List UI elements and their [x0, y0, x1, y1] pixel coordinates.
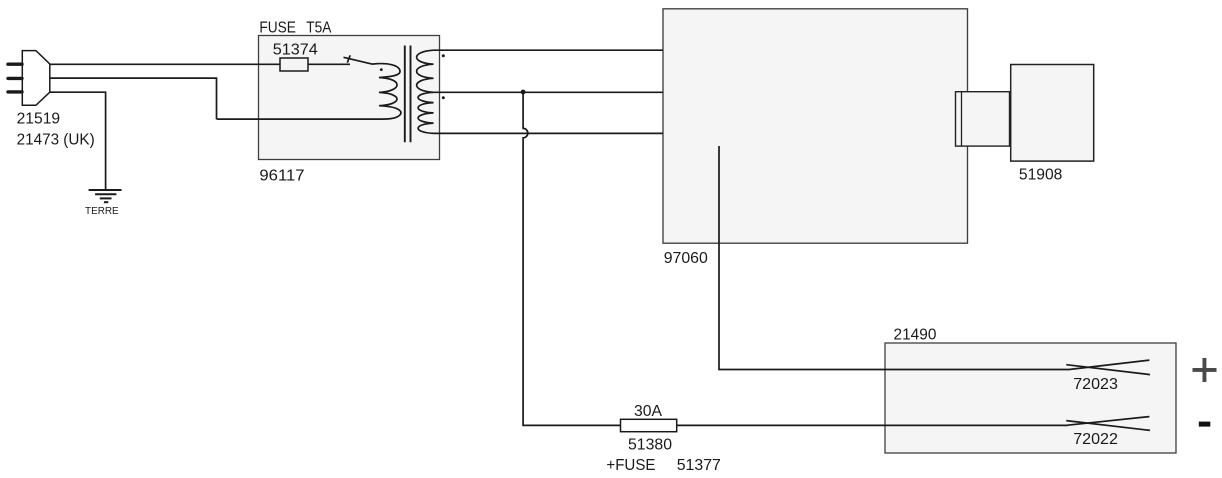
svg-text:30A: 30A: [634, 403, 662, 420]
svg-text:+FUSE: +FUSE: [606, 457, 655, 474]
svg-text:21473 (UK): 21473 (UK): [17, 131, 95, 148]
svg-text:72023: 72023: [1073, 376, 1118, 393]
svg-text:72022: 72022: [1073, 431, 1118, 448]
svg-text:97060: 97060: [664, 250, 708, 267]
svg-text:51374: 51374: [273, 41, 318, 58]
svg-text:51377: 51377: [677, 457, 721, 474]
svg-text:TERRE: TERRE: [85, 206, 119, 217]
svg-text:FUSE: FUSE: [259, 20, 296, 37]
svg-text:21519: 21519: [17, 110, 61, 127]
svg-text:21490: 21490: [894, 326, 937, 343]
svg-text:T5A: T5A: [306, 20, 331, 37]
svg-text:51380: 51380: [628, 437, 672, 454]
svg-text:96117: 96117: [259, 168, 304, 185]
svg-text:51908: 51908: [1019, 166, 1063, 183]
